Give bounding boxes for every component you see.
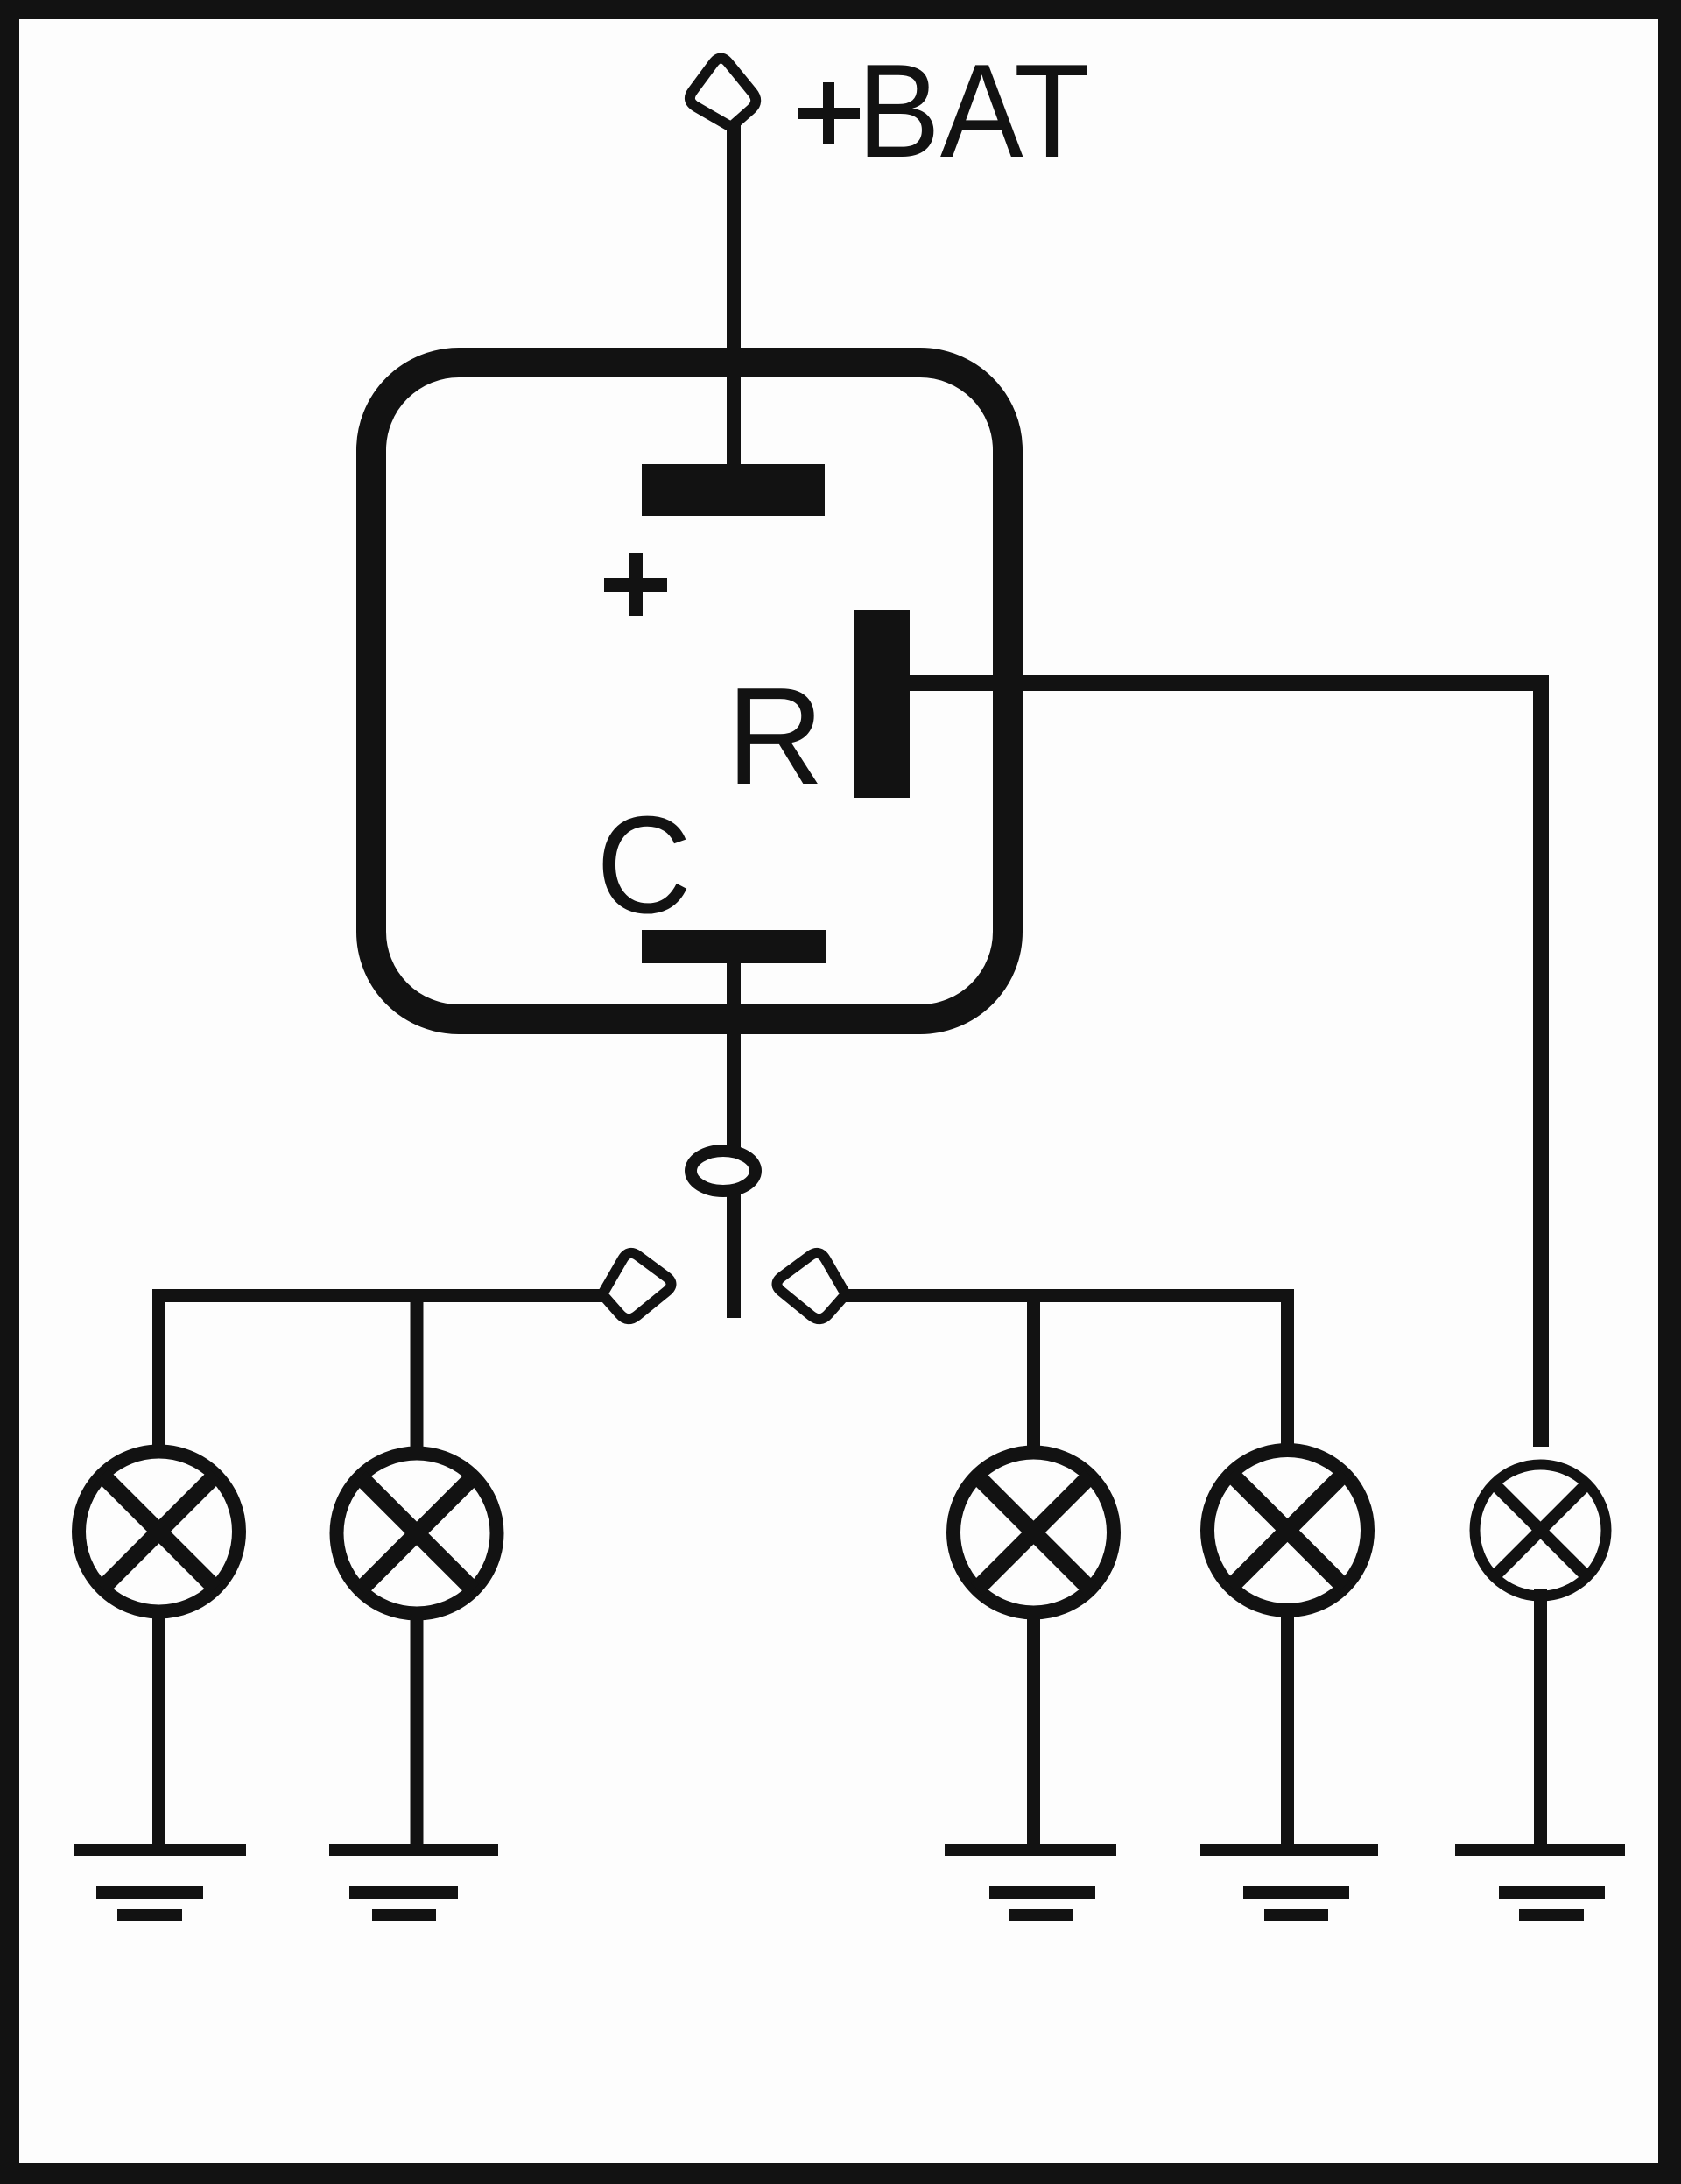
capacitor C top plate [642, 464, 825, 516]
wire lamp L3 to ground [1027, 1617, 1040, 1848]
lamp L3 [953, 1453, 1114, 1613]
svg-text:BAT: BAT [857, 37, 1090, 186]
polarity + label [604, 553, 667, 616]
ground lamp L3 [945, 1844, 1116, 1921]
wire battery to relay [727, 123, 741, 490]
wire lamp L2 to ground [411, 1617, 424, 1848]
ground lamp L2 [329, 1844, 498, 1921]
lamp L5 [1475, 1465, 1607, 1596]
ground lamp L1 [74, 1844, 246, 1921]
wire lamp L4 to ground [1281, 1614, 1294, 1848]
connector oval [691, 1151, 756, 1191]
terminal +BAT [690, 58, 756, 127]
terminal left contact [602, 1253, 672, 1319]
relay box U1 [371, 363, 1008, 1019]
label +BAT [798, 37, 1090, 186]
svg-text:R: R [727, 659, 824, 814]
capacitor C bottom plate [642, 930, 826, 963]
wire lamp2 drop [411, 1296, 424, 1449]
wire relay output down [727, 963, 741, 1149]
wire lamp L5 to ground [1534, 1589, 1547, 1848]
terminal right contact [777, 1253, 846, 1319]
lamp L4 [1207, 1450, 1368, 1610]
lamp L2 [337, 1454, 497, 1614]
wire left feed [159, 1296, 603, 1450]
ground lamp L5 [1455, 1844, 1625, 1921]
svg-text:C: C [596, 788, 692, 942]
wire lamp3 drop [1027, 1296, 1040, 1449]
wire contact R to right lamp [910, 683, 1541, 1447]
lamp L1 [79, 1452, 239, 1612]
relay contact bar R [854, 610, 910, 798]
wire lamp L1 to ground [152, 1616, 165, 1848]
wire oval to switch [727, 1192, 741, 1318]
ground lamp L4 [1200, 1844, 1378, 1921]
wire right feed [845, 1296, 1288, 1448]
